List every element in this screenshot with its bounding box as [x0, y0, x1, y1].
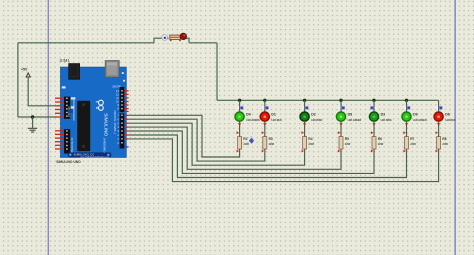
pin stubs left power — [55, 98, 64, 117]
svg-text:R8: R8 — [442, 137, 446, 141]
wire: top rail from corner to push button — [18, 42, 154, 44]
node D3 anode column — [372, 99, 375, 102]
current arrow — [436, 131, 439, 134]
current arrow — [338, 131, 341, 134]
wire: D1 cathode to R3 — [264, 121, 266, 136]
svg-text:SIM1: SIM1 — [60, 58, 71, 63]
atmega chip — [77, 101, 90, 151]
wire: rail to D1 — [264, 100, 266, 112]
ground — [28, 128, 37, 132]
pin stubs left analog — [55, 131, 64, 149]
pin state marker D9 — [404, 107, 406, 110]
wire: D4 cathode to R2 — [239, 121, 241, 136]
svg-text:D3: D3 — [381, 113, 386, 117]
wire: Arduino pin to R3 feed — [129, 119, 265, 161]
wire: D9 cathode to R7 — [406, 121, 408, 136]
current arrow — [403, 131, 406, 134]
wire: ground stub — [32, 117, 34, 128]
pin stub blue rx — [124, 146, 128, 148]
LED D2 — [300, 112, 309, 121]
svg-text:D1: D1 — [271, 113, 276, 117]
pin state marker D1 — [262, 107, 264, 110]
svg-text:D6: D6 — [445, 113, 450, 117]
svg-text:www.TheEngineeringProjects.com: www.TheEngineeringProjects.com — [80, 156, 109, 159]
current arrow — [262, 131, 265, 134]
wire: button bump right riser — [181, 38, 189, 43]
wire: rail to D6 — [438, 100, 440, 112]
svg-text:LED-RED: LED-RED — [271, 120, 282, 122]
resistor R2 — [238, 137, 242, 149]
svg-text:R7: R7 — [410, 137, 414, 141]
svg-text:(ARDUINO): (ARDUINO) — [102, 138, 106, 154]
right header upper (8-13) — [120, 87, 125, 112]
svg-text:LED-RED: LED-RED — [445, 120, 456, 122]
left header power — [64, 97, 70, 119]
power symbol +5V — [21, 67, 30, 77]
LED D6 — [434, 112, 443, 121]
svg-text:LED-GREEN: LED-GREEN — [413, 120, 427, 122]
resistor R7 — [405, 137, 409, 149]
svg-text:D8: D8 — [348, 113, 353, 117]
usb connector — [105, 61, 119, 78]
resistor R4 — [303, 137, 307, 149]
aux component left of chip — [71, 97, 76, 99]
svg-text:LED-GREEN: LED-GREEN — [246, 120, 260, 122]
reset label — [62, 86, 66, 88]
svg-text:R6: R6 — [378, 137, 382, 141]
pin state marker D3 — [375, 107, 377, 110]
wire: Arduino pin to R2 feed — [129, 115, 240, 157]
node D8 anode column — [339, 99, 342, 102]
resistor R8 — [437, 137, 441, 149]
wire: rail to D3 — [373, 100, 375, 112]
current arrow — [371, 131, 374, 134]
svg-text:LED-BIRG: LED-BIRG — [311, 120, 322, 122]
svg-text:R3: R3 — [269, 137, 273, 141]
svg-text:220R: 220R — [410, 144, 416, 146]
wire: ground net from top-left corner down to Arduino left pin — [18, 43, 56, 117]
wire: +5V to Arduino 5V pin — [28, 77, 56, 106]
via dots — [122, 72, 124, 74]
junction: ground tap — [31, 115, 34, 118]
LED D3 — [369, 112, 378, 121]
wire: LED common rail — [217, 99, 439, 101]
wire: D8 cathode to R5 — [340, 121, 342, 136]
wire: rail to D2 — [304, 100, 306, 112]
svg-text:DIGITAL (PWM~): DIGITAL (PWM~) — [113, 111, 117, 134]
current arrow — [371, 150, 374, 153]
svg-text:220R: 220R — [378, 144, 384, 146]
resistor R3 — [263, 137, 267, 149]
wire: rail to D9 — [406, 100, 408, 112]
pin number labels — [116, 89, 119, 145]
pin stubs right upper — [124, 91, 128, 109]
svg-text:220R: 220R — [442, 144, 448, 146]
LED D9 — [402, 112, 411, 121]
wire: Arduino pin to R5 feed — [129, 127, 341, 169]
svg-text:LED-GREEN: LED-GREEN — [348, 120, 362, 122]
wire: Arduino pin to R7 feed — [129, 135, 407, 178]
svg-text:D4: D4 — [246, 113, 251, 117]
current arrow — [237, 131, 240, 134]
wire: vertical drop to LED anode rail — [216, 43, 218, 101]
node D4 anode column — [238, 99, 241, 102]
svg-text:+5V: +5V — [21, 67, 28, 71]
resistor R5 — [339, 137, 343, 149]
svg-text:SIMULINO: SIMULINO — [103, 113, 108, 136]
probe marker near R2 — [249, 138, 254, 144]
svg-text:D9: D9 — [413, 113, 418, 117]
power jack — [68, 63, 80, 79]
wire: rail to D8 — [340, 100, 342, 112]
svg-text:220R: 220R — [308, 144, 314, 146]
left header analog — [64, 129, 70, 153]
current arrow — [403, 150, 406, 153]
pin state arrows below LEDs — [238, 123, 440, 126]
board — [61, 67, 127, 157]
node D2 anode column — [303, 99, 306, 102]
pin stubs right lower — [124, 111, 128, 138]
right header lower (0-7) — [120, 114, 125, 149]
LED D4 — [235, 112, 244, 121]
pin state marker D8 — [338, 107, 340, 110]
bottom banner — [68, 152, 112, 157]
wire: button bump left riser — [154, 38, 169, 43]
wire: D3 cathode to R6 — [373, 121, 375, 136]
current arrow — [436, 150, 439, 153]
LED D1 — [260, 112, 269, 121]
push button — [162, 33, 187, 41]
arduino logo — [99, 100, 104, 110]
sheet border right — [454, 0, 456, 255]
LED D8 — [336, 112, 345, 121]
node D9 anode column — [405, 99, 408, 102]
current arrow — [302, 131, 305, 134]
Arduino Uno (SIMULINO) — [55, 58, 129, 164]
wire: Arduino pin to R6 feed — [129, 131, 374, 173]
svg-text:SIMULINO UNO: SIMULINO UNO — [56, 160, 81, 164]
current arrow — [302, 150, 305, 153]
wire: D2 cathode to R4 — [304, 121, 306, 136]
current arrow — [262, 150, 265, 153]
resistor R6 — [372, 137, 376, 149]
current arrow — [237, 150, 240, 153]
svg-text:220R: 220R — [243, 144, 249, 146]
node D1 anode column — [263, 99, 266, 102]
svg-text:R5: R5 — [345, 137, 349, 141]
wire: Arduino pin to R8 feed — [129, 139, 439, 182]
pin state marker D2 — [302, 107, 304, 110]
wire: top rail from button to drop — [189, 42, 217, 44]
pin state marker D6 — [436, 107, 438, 110]
wire: Arduino pin to R4 feed — [129, 123, 305, 165]
pin state marker D4 — [237, 107, 239, 110]
svg-text:D2: D2 — [311, 113, 316, 117]
svg-text:220R: 220R — [345, 144, 351, 146]
svg-text:ANALOG IN: ANALOG IN — [70, 138, 74, 153]
svg-text:LED-BIRG: LED-BIRG — [381, 120, 392, 122]
wire: rail to D4 — [239, 100, 241, 112]
current arrow — [338, 150, 341, 153]
svg-text:R4: R4 — [308, 137, 312, 141]
svg-text:R2: R2 — [243, 137, 247, 141]
wire: D6 cathode to R8 — [438, 121, 440, 136]
sheet border left — [48, 0, 49, 255]
svg-text:220R: 220R — [269, 144, 275, 146]
